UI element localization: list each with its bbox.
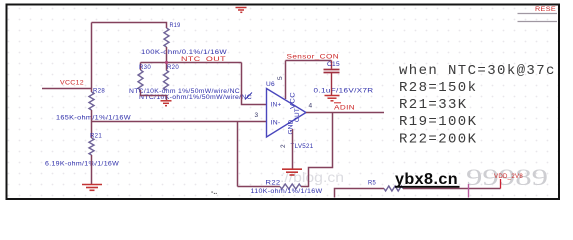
svg-text:R20: R20 bbox=[167, 64, 179, 71]
svg-text:2: 2 bbox=[280, 144, 287, 148]
page background dot grid bbox=[7, 5, 559, 199]
ground GND2 below R20 bbox=[161, 101, 172, 106]
svg-text:-..: -.. bbox=[211, 189, 217, 196]
watermark ybx8.cn underline bbox=[395, 186, 460, 188]
ground GND5 top center bbox=[236, 8, 247, 13]
svg-text:R21=33K: R21=33K bbox=[399, 97, 468, 113]
op-amp U1 triangle bbox=[267, 89, 307, 138]
capacitor C1 top stub bbox=[331, 61, 333, 69]
resistor R28 bbox=[89, 92, 94, 110]
svg-text:R19=100K: R19=100K bbox=[399, 114, 477, 130]
svg-text:R21: R21 bbox=[90, 133, 102, 140]
svg-text:R5: R5 bbox=[368, 180, 376, 187]
svg-text:TLV521: TLV521 bbox=[291, 143, 314, 150]
svg-text:IN+: IN+ bbox=[271, 102, 282, 109]
svg-text:165K-ohm/1%/1/16W: 165K-ohm/1%/1/16W bbox=[56, 114, 132, 121]
wire IN- horizontal (divider midpoint to op-amp) bbox=[92, 121, 267, 123]
svg-text:0.1uF/16V/X7R: 0.1uF/16V/X7R bbox=[314, 88, 374, 95]
resistor R5 bbox=[384, 186, 403, 191]
ground GND1 below R21 bbox=[82, 185, 102, 191]
wire top horizontal (node to R19) bbox=[92, 23, 167, 29]
svg-text:R28: R28 bbox=[93, 88, 105, 95]
svg-text:5: 5 bbox=[277, 76, 284, 80]
wire NTC_OUT horizontal bbox=[141, 62, 242, 64]
svg-text:C15: C15 bbox=[327, 61, 340, 68]
svg-text:IN-: IN- bbox=[271, 119, 281, 126]
svg-text:ADIN: ADIN bbox=[334, 105, 355, 112]
NC strike-through mark bbox=[245, 93, 252, 100]
wire left vertical VCC12 column bbox=[91, 23, 93, 89]
svg-text:6.19K-ohm/1%/1/16W: 6.19K-ohm/1%/1/16W bbox=[45, 160, 120, 167]
wire VCC12 horizontal bbox=[42, 88, 92, 90]
wire R19 bottom stub crossing NTC_OUT to R20 bbox=[166, 47, 168, 70]
svg-text:OUT: OUT bbox=[294, 108, 301, 122]
wire off-page gray line 1 bbox=[518, 13, 558, 15]
capacitor C15 bottom stub bbox=[331, 73, 333, 96]
svg-text:RESE: RESE bbox=[535, 6, 556, 13]
wire R5 right segment to VDD bbox=[403, 188, 501, 190]
resistor R22 bbox=[280, 184, 301, 189]
resistor R20 bbox=[164, 70, 169, 90]
svg-text:when NTC=30k@37c: when NTC=30k@37c bbox=[399, 63, 556, 79]
svg-text:3: 3 bbox=[255, 112, 259, 119]
svg-text:R22=200K: R22=200K bbox=[399, 131, 477, 147]
annotation text block bbox=[399, 63, 556, 147]
svg-text:VCC: VCC bbox=[290, 92, 297, 109]
wire off-page gray line 2 bbox=[518, 21, 558, 23]
resistor R30 bbox=[138, 70, 143, 90]
svg-text:R28=150k: R28=150k bbox=[399, 80, 477, 96]
wire R22 right segment up to ADIN bbox=[301, 113, 333, 187]
svg-text:4: 4 bbox=[309, 103, 313, 110]
wire Sensor_CON horizontal bbox=[286, 60, 332, 62]
svg-text:GND: GND bbox=[288, 120, 295, 135]
wire R22 left segment bbox=[238, 186, 281, 188]
wire R30 top stub bbox=[140, 63, 142, 71]
schematic frame border bbox=[7, 5, 560, 200]
wire R30 bottom link to R20 bbox=[141, 90, 167, 100]
wire R21 bottom stub bbox=[91, 155, 93, 184]
svg-text:VDD_2V8: VDD_2V8 bbox=[494, 173, 523, 180]
wire junction drop at x468 bbox=[468, 184, 470, 198]
wire R28 top stub bbox=[91, 89, 93, 93]
svg-text:R19: R19 bbox=[170, 22, 181, 29]
wire op-amp output ADIN bbox=[306, 112, 384, 114]
wire R21 top stub bbox=[91, 122, 93, 139]
svg-text:R22: R22 bbox=[266, 180, 281, 187]
wire R28 bottom stub to junction bbox=[91, 110, 93, 122]
junction at R19/NTC_OUT bbox=[165, 61, 168, 64]
wire feedback branch down from IN- node bbox=[237, 122, 239, 187]
svg-text:Sensor_CON: Sensor_CON bbox=[287, 54, 340, 61]
svg-text:110K-ohm/1%/1/16W: 110K-ohm/1%/1/16W bbox=[251, 188, 324, 195]
ADIN overbar bbox=[334, 102, 341, 104]
svg-text:VCC12: VCC12 bbox=[60, 80, 84, 87]
wire VDD_2V8 vertical bbox=[500, 179, 502, 189]
wire NTC_OUT down to IN+ bbox=[242, 63, 267, 105]
wire op-amp pin2 GND vertical bbox=[292, 129, 294, 169]
ground GND4 below op-amp bbox=[282, 169, 302, 175]
resistor R21 bbox=[89, 138, 94, 155]
svg-text:U6: U6 bbox=[266, 81, 275, 88]
wire op-amp pin5 VCC vertical bbox=[285, 61, 287, 100]
svg-text:R30: R30 bbox=[139, 64, 151, 71]
wire R5 net off-page drop bbox=[335, 189, 385, 198]
resistor R19 bbox=[164, 28, 169, 47]
ground GND3 below C15 bbox=[325, 96, 340, 101]
capacitor C15 plates bbox=[324, 70, 340, 73]
svg-text:ybx8.cn: ybx8.cn bbox=[395, 171, 458, 188]
